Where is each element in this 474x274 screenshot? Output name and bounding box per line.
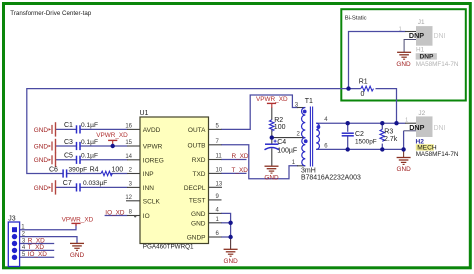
svg-text:T_XD: T_XD (232, 167, 249, 174)
wire OUTB to T1 pin1 (221, 145, 298, 179)
svg-text:VPWR_XD: VPWR_XD (256, 96, 288, 103)
J1 pin2 lead (404, 40, 416, 53)
wire C6-R4 row (67, 173, 101, 175)
svg-text:DNP: DNP (409, 123, 424, 132)
wire IO_XD stub (105, 215, 128, 217)
wire C5 row (56, 159, 77, 161)
value labels left caps (49, 122, 123, 187)
wire C1 row (56, 128, 77, 130)
svg-text:GND: GND (34, 157, 49, 164)
junction VPWR_XD at VPWR pin (111, 144, 115, 148)
transducer J1 DNP (bi-static) (399, 19, 459, 68)
svg-text:C6: C6 (49, 166, 58, 173)
capacitor C4 polarized (265, 140, 280, 150)
wire J3 pin2 to GND (20, 237, 77, 243)
svg-text:INN: INN (143, 185, 155, 192)
wire bottom rail secondary to gnd corner (316, 131, 403, 150)
svg-text:GNDP: GNDP (187, 235, 206, 242)
capacitor C2 (342, 133, 354, 136)
svg-text:100: 100 (274, 124, 286, 131)
svg-text:J3: J3 (8, 215, 16, 222)
J1 pin1 lead (405, 31, 416, 33)
wire J3 pin1 to VPWR (20, 224, 76, 230)
svg-text:VPWR_XD: VPWR_XD (62, 217, 94, 224)
svg-text:GND: GND (191, 211, 206, 218)
wire INP loop left-top long (27, 89, 361, 174)
svg-text:0.1µF: 0.1µF (81, 139, 98, 146)
svg-text:DNI: DNI (434, 33, 446, 40)
C4 bottom lead to gnd (271, 148, 273, 166)
svg-text:2.7k: 2.7k (384, 136, 398, 143)
capacitor C5 (76, 156, 78, 164)
wire R3 stubs (381, 123, 383, 129)
wire C2 stubs (347, 123, 349, 132)
resistor R3 (380, 129, 385, 141)
ground earth under U1 right (223, 249, 238, 264)
svg-text:1500pF: 1500pF (355, 138, 377, 145)
ground earth under J3 pin2 (70, 243, 85, 258)
svg-text:DNP: DNP (409, 31, 424, 40)
svg-text:DNP: DNP (420, 54, 435, 61)
svg-text:RXD: RXD (192, 157, 206, 164)
svg-text:IO: IO (143, 213, 150, 220)
svg-text:OUTB: OUTB (187, 142, 205, 149)
svg-text:VPWR: VPWR (143, 144, 163, 151)
junction top rail / R3 (380, 121, 384, 125)
svg-text:15: 15 (125, 140, 132, 146)
T1 pin1 lead (297, 165, 305, 167)
svg-text:R1: R1 (359, 78, 368, 85)
svg-text:OUTA: OUTA (188, 127, 206, 134)
svg-text:100µF: 100µF (277, 147, 297, 154)
resistor R1 (361, 86, 374, 91)
ground GND power-bar C7 row (34, 180, 56, 194)
svg-text:0.1µF: 0.1µF (81, 122, 98, 129)
svg-text:10: 10 (216, 168, 223, 174)
svg-text:C4: C4 (277, 139, 286, 146)
wire OUTA to T1 pin3 (221, 95, 298, 129)
capacitor C3 (76, 142, 78, 150)
capacitor C1 (76, 125, 78, 133)
svg-text:C5: C5 (64, 153, 73, 160)
wire bi-static riser to J1 pin1 (349, 32, 406, 89)
capacitors C1 C3 C5 C7 plates (63, 125, 80, 191)
power port VPWR_XD above J3 pin1 (62, 217, 94, 226)
phase dots (303, 110, 307, 114)
wire top rail secondary to H2 (316, 122, 405, 124)
svg-text:0.033µF: 0.033µF (83, 180, 107, 187)
svg-text:IO_XD: IO_XD (28, 251, 48, 258)
svg-text:1: 1 (399, 26, 402, 32)
svg-text:R_XD: R_XD (232, 153, 249, 160)
svg-text:J1: J1 (418, 19, 425, 26)
wire J3 pin5 stub (20, 256, 55, 258)
junction center-tap / R2 / C4 (270, 135, 274, 139)
core lines (309, 107, 311, 167)
svg-text:IOREG: IOREG (143, 157, 164, 164)
wire R1 right to top-rail drop (376, 89, 397, 124)
transducer H2 MECH (405, 110, 459, 158)
wire IC gnd pins (221, 213, 231, 237)
junction bottom rail / R3 (380, 147, 384, 151)
wire J3 pin4 stub (20, 249, 55, 251)
svg-text:Bi-Static: Bi-Static (345, 15, 367, 21)
U1 right pin leads (209, 128, 222, 130)
svg-text:TEST: TEST (189, 197, 206, 204)
junction GNDP pin 6 (228, 235, 232, 239)
ground earth under C4 (264, 166, 279, 181)
svg-text:VPWR_XD: VPWR_XD (96, 132, 128, 139)
svg-text:DECPL: DECPL (184, 185, 206, 192)
primary winding upper (302, 108, 306, 138)
wire C7 row (56, 186, 77, 188)
svg-text:H1: H1 (416, 47, 425, 54)
wire J3 pin3 stub (20, 243, 55, 245)
svg-text:J2: J2 (418, 110, 425, 117)
svg-text:C3: C3 (64, 139, 73, 146)
svg-text:12: 12 (125, 195, 132, 201)
svg-text:IO_XD: IO_XD (105, 209, 125, 216)
svg-text:TXD: TXD (193, 171, 206, 178)
T1 labels (301, 98, 361, 181)
connector J3 (8, 215, 47, 266)
svg-text:U1: U1 (140, 110, 149, 117)
svg-text:1: 1 (405, 118, 408, 124)
svg-text:GND: GND (34, 127, 49, 134)
svg-text:C2: C2 (355, 131, 364, 138)
ground GND power-bar C5 row (34, 153, 56, 167)
junction top rail / C2 (346, 121, 350, 125)
ground GND power-bar C3 row (34, 139, 56, 153)
svg-text:C7: C7 (63, 180, 72, 187)
svg-text:14: 14 (125, 154, 132, 160)
ground earth under bottom rail (396, 149, 411, 173)
junction bottom rail / C2 (346, 147, 350, 151)
junction INP net at R1 (346, 86, 350, 90)
ground earth in bi-static box (396, 52, 411, 68)
T1 pin3 lead (297, 107, 305, 109)
svg-text:AVDD: AVDD (143, 127, 161, 134)
H2 pin2 lead (404, 130, 417, 132)
capacitor C6 (62, 169, 64, 177)
wire C3 row (56, 145, 77, 147)
svg-text:16: 16 (125, 124, 132, 130)
resistor R2 (270, 120, 275, 131)
svg-text:GND: GND (34, 143, 49, 150)
svg-text:GND: GND (223, 258, 238, 265)
wire RXD stub (221, 159, 247, 161)
svg-text:INP: INP (143, 171, 154, 178)
svg-text:GND: GND (396, 61, 411, 68)
svg-text:C1: C1 (64, 122, 73, 129)
resistor R4 (101, 171, 112, 176)
svg-text:R3: R3 (384, 129, 393, 136)
svg-text:GND: GND (34, 185, 49, 192)
svg-text:100: 100 (112, 166, 124, 173)
svg-text:GND: GND (70, 252, 85, 259)
svg-text:0.1µF: 0.1µF (81, 153, 98, 160)
svg-text:13: 13 (216, 182, 223, 188)
transformer T1 (302, 107, 321, 167)
svg-text:MA58MF14-7N: MA58MF14-7N (416, 151, 459, 158)
svg-text:B78416A2232A003: B78416A2232A003 (301, 174, 361, 181)
svg-text:11: 11 (216, 154, 223, 160)
U1 left pin leads (127, 128, 140, 130)
H2 pin1 lead (405, 122, 416, 124)
svg-text:MA58MF14-7N: MA58MF14-7N (416, 61, 459, 68)
svg-text:R4: R4 (90, 166, 99, 173)
svg-text:T1: T1 (305, 98, 313, 105)
capacitor C7 (76, 183, 78, 191)
op-amp U1 body PGA460TPWRQ1 (125, 110, 223, 251)
power port VPWR_XD above R2 (256, 96, 288, 108)
junction GND pin 1 (228, 221, 232, 225)
svg-text:DNI: DNI (434, 125, 446, 132)
T1 center-tap lead (272, 137, 306, 139)
R2 leads (271, 108, 273, 120)
wire TXD stub (221, 172, 247, 174)
svg-text:SCLK: SCLK (143, 198, 161, 205)
svg-text:Transformer-Drive Center-tap: Transformer-Drive Center-tap (10, 10, 91, 17)
svg-text:GND: GND (191, 220, 206, 227)
junction bottom rail / GND drop (401, 147, 405, 151)
junction top rail / R1 drop (394, 121, 398, 125)
ground GND power-bar C1 row (34, 122, 56, 136)
secondary winding (316, 123, 319, 149)
IC right gnd lead down (230, 237, 232, 249)
primary winding lower (302, 138, 306, 166)
svg-text:0: 0 (361, 91, 365, 98)
svg-text:GND: GND (396, 166, 411, 173)
Bi-Static box (341, 9, 466, 100)
svg-text:GND: GND (264, 175, 279, 182)
svg-text:PGA460TPWRQ1: PGA460TPWRQ1 (143, 244, 194, 251)
power port VPWR_XD at C3 row (96, 132, 128, 146)
R1 R2 R3 C2 C4 labels (274, 78, 398, 154)
svg-text:390pF: 390pF (69, 166, 88, 173)
